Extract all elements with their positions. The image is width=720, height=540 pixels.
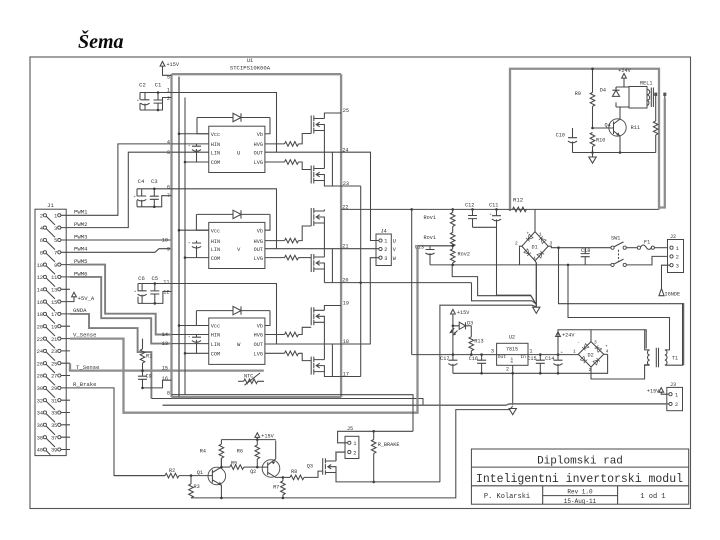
wire V-high drain to DC+ (pin22) (323, 209, 325, 211)
svg-text:Vb: Vb (257, 324, 263, 330)
svg-text:W: W (393, 256, 397, 262)
svg-text:1: 1 (676, 246, 679, 252)
svg-text:3: 3 (54, 226, 57, 232)
svg-text:40: 40 (37, 448, 43, 454)
svg-text:25: 25 (51, 361, 57, 367)
net labels on J1 wires (73, 209, 100, 388)
svg-text:10: 10 (37, 263, 43, 269)
NTC thermistor (238, 373, 264, 385)
capacitor C16 (469, 355, 486, 374)
svg-text:31: 31 (51, 398, 57, 404)
svg-text:Vcc: Vcc (211, 324, 220, 330)
title block (471, 449, 688, 505)
driver block W (209, 318, 265, 364)
svg-text:Rev 1.0: Rev 1.0 (567, 489, 593, 496)
wire D2 top to +24V line (590, 330, 592, 342)
capacitor C10 (556, 127, 594, 153)
ground at U2 gnd (509, 409, 516, 415)
svg-text:R10: R10 (596, 138, 605, 144)
slide title (78, 31, 124, 54)
svg-text:U: U (237, 150, 240, 157)
connector J5 (345, 426, 359, 459)
wire relay emitter rail (573, 152, 656, 154)
connector J3 (667, 382, 683, 411)
U1 bus pin numbers right (342, 108, 349, 377)
svg-text:+5V_A: +5V_A (78, 295, 95, 302)
+24V arrow relay (618, 68, 631, 87)
wire J3 pin2 long return (163, 404, 669, 405)
svg-text:23: 23 (51, 349, 57, 355)
svg-text:+15V: +15V (261, 434, 274, 440)
svg-text:11: 11 (51, 275, 57, 281)
svg-text:+15V: +15V (647, 388, 660, 394)
svg-text:+15V: +15V (457, 310, 470, 316)
svg-text:V: V (237, 246, 241, 253)
svg-text:3: 3 (550, 241, 553, 247)
wire U-high drain pin25 (324, 113, 341, 119)
resistor R6 (237, 440, 260, 469)
capacitor C4 (137, 196, 146, 201)
driver V row wires (179, 230, 209, 257)
svg-text:2: 2 (515, 241, 518, 247)
bootstrap diode W (196, 306, 270, 325)
svg-text:+: + (527, 232, 530, 237)
svg-text:2: 2 (40, 214, 43, 220)
resistor R1 (140, 349, 145, 363)
svg-text:N: N (511, 361, 513, 365)
J1 pin numbers (37, 214, 58, 454)
svg-text:C10: C10 (556, 133, 565, 139)
svg-text:+24V: +24V (562, 333, 575, 339)
wire phase U inner riser (331, 152, 333, 186)
connector J1 (35, 202, 66, 456)
resistor R11 (631, 99, 658, 153)
svg-text:J1: J1 (47, 202, 54, 209)
svg-text:8: 8 (40, 251, 43, 257)
wire W-high source (323, 322, 325, 344)
wire D1 bottom to ground node (535, 261, 536, 307)
svg-text:*: * (188, 336, 190, 341)
svg-text:COM: COM (211, 352, 220, 358)
wire T_Sense (70, 363, 264, 370)
J1 pin rows (46, 215, 70, 454)
resistor R13 (469, 326, 484, 355)
svg-text:Rov2: Rov2 (458, 252, 470, 258)
wire D1 AC right to switch (548, 246, 611, 248)
resistor R12 (513, 197, 527, 212)
wire R_Brake (70, 388, 165, 476)
wire AC lower line (520, 264, 612, 266)
resistor LVG V (265, 257, 285, 259)
svg-text:HIN: HIN (211, 333, 220, 339)
wire W-low drain to phase (323, 344, 325, 360)
relay section box (510, 69, 659, 210)
svg-text:35: 35 (51, 423, 57, 429)
svg-text:3: 3 (384, 256, 387, 262)
svg-text:1 od 1: 1 od 1 (640, 493, 665, 501)
wire phase U (pin24) to J4 (265, 152, 379, 240)
svg-text:Rov1: Rov1 (424, 235, 436, 241)
mosfet Q W-high (311, 307, 324, 325)
svg-text:C16: C16 (469, 356, 478, 362)
svg-text:19: 19 (343, 300, 349, 306)
svg-text:GNDA: GNDA (73, 307, 87, 314)
U1 pin number labels (left bus) (162, 74, 170, 396)
svg-text:Q2: Q2 (250, 469, 256, 475)
svg-text:25: 25 (343, 108, 349, 114)
svg-text:12: 12 (163, 289, 169, 295)
svg-text:+: + (134, 196, 137, 200)
svg-text:5: 5 (167, 74, 170, 80)
wire Rov2 bottom to D1 minus rail (430, 248, 520, 265)
wire D1 plus to DC+ (534, 209, 536, 231)
wire V-low source to DC- (pin20) (323, 269, 325, 283)
wire phase W (pin18) to J4 (265, 258, 379, 344)
svg-text:P. Kolarski: P. Kolarski (484, 493, 530, 501)
svg-text:14: 14 (162, 332, 168, 338)
svg-text:J4: J4 (380, 229, 386, 235)
svg-text:OUT: OUT (254, 247, 263, 253)
bridge rectifier D2 (573, 339, 609, 373)
relay REL1 (629, 81, 666, 109)
svg-text:13: 13 (162, 341, 168, 347)
resistor Rov1 (424, 209, 455, 226)
wire PWM4 (70, 249, 172, 253)
+15V rail transistor stage (221, 439, 275, 441)
driver W row wires (172, 326, 209, 354)
wire D2 bottom loop to T1 (591, 365, 650, 379)
svg-text:15-Aug-11: 15-Aug-11 (564, 498, 597, 505)
local filter cap W (188, 335, 201, 354)
svg-text:R1: R1 (146, 353, 152, 359)
wire PWM6 (70, 277, 172, 344)
svg-text:22: 22 (37, 337, 43, 343)
svg-text:HVG: HVG (254, 239, 263, 245)
svg-text:C1: C1 (155, 82, 162, 89)
svg-text:C15: C15 (527, 356, 536, 362)
svg-text:U2: U2 (509, 335, 515, 341)
svg-text:PWM3: PWM3 (74, 233, 87, 240)
svg-text:+: + (605, 345, 608, 350)
driver block U (209, 126, 265, 172)
svg-text:+: + (137, 100, 140, 104)
svg-text:Rov1: Rov1 (424, 215, 436, 221)
fuse F1 (626, 240, 667, 250)
svg-text:LIN: LIN (211, 342, 220, 348)
mosfet Q V-high (311, 208, 324, 226)
wire D2 right to cap ground rail (604, 353, 608, 355)
svg-text:19: 19 (51, 324, 57, 330)
LED D3 (450, 320, 473, 335)
wire Q3 drain to J5 pin2 (336, 452, 346, 461)
svg-text:1: 1 (573, 349, 576, 355)
capacitor C2 (140, 100, 149, 105)
svg-text:-: - (577, 341, 580, 346)
resistor R10 (590, 133, 605, 153)
svg-text:20: 20 (37, 324, 43, 330)
mosfet Q U-low (311, 166, 324, 184)
wire phase W inner riser (331, 344, 333, 377)
svg-text:F1: F1 (644, 240, 650, 246)
wire U-high source to phase (323, 131, 325, 153)
mosfet Q U-high (311, 116, 324, 134)
svg-text:D2: D2 (588, 352, 594, 358)
resistor R3 (189, 476, 200, 498)
svg-text:D1: D1 (532, 244, 538, 250)
resistor R8 (283, 469, 323, 480)
bootstrap cap V (pin6 rail to phase) (172, 189, 277, 249)
svg-text:Diplomski rad: Diplomski rad (537, 456, 623, 468)
wire U1 pin8 brake output (172, 395, 414, 432)
ground below R10 (592, 153, 594, 158)
svg-text:2: 2 (384, 247, 387, 253)
svg-text:U1: U1 (247, 58, 253, 64)
svg-text:7: 7 (54, 251, 57, 257)
resistor R9 (575, 67, 595, 128)
svg-text:7815: 7815 (506, 346, 518, 352)
svg-text:33: 33 (51, 411, 57, 417)
svg-text:J2: J2 (670, 234, 676, 240)
svg-text:C6: C6 (138, 275, 145, 282)
wire +15V feed to U2 out (411, 209, 413, 354)
resistor HVG U (265, 143, 285, 145)
transformer T1 (645, 304, 683, 367)
svg-text:R2: R2 (169, 468, 175, 474)
svg-text:C9: C9 (146, 374, 152, 380)
svg-text:14: 14 (37, 288, 43, 294)
wire PWM2 (70, 152, 172, 227)
svg-text:OUT: OUT (254, 342, 263, 348)
svg-text:*: * (188, 241, 190, 246)
resistor LVG W (265, 352, 285, 354)
svg-text:15: 15 (162, 365, 168, 371)
svg-text:1: 1 (353, 441, 356, 447)
capacitor C14 (545, 351, 563, 373)
svg-text:6: 6 (167, 184, 170, 190)
capacitor C13 (415, 245, 435, 265)
ground node bundle arrow (533, 263, 540, 314)
svg-text:38: 38 (37, 435, 43, 441)
svg-text:R13: R13 (474, 339, 483, 345)
svg-text:R4: R4 (200, 448, 206, 454)
capacitor C3 (150, 196, 159, 199)
svg-text:21: 21 (51, 337, 57, 343)
svg-text:17: 17 (51, 312, 57, 318)
svg-text:PWM1: PWM1 (74, 209, 88, 216)
svg-text:1: 1 (529, 349, 532, 355)
svg-text:D4: D4 (600, 88, 606, 94)
resistor R2 (165, 468, 212, 478)
svg-text:LIN: LIN (211, 247, 220, 253)
+15V arrow transistor stage (255, 433, 275, 440)
svg-text:+15V: +15V (167, 62, 180, 68)
capacitor C9 (138, 376, 147, 379)
svg-text:3: 3 (167, 150, 170, 156)
svg-text:R_BRAKE: R_BRAKE (378, 442, 400, 448)
svg-text:COM: COM (211, 256, 220, 262)
wire V-low drain to phase (323, 249, 325, 257)
svg-text:NTC: NTC (244, 373, 253, 379)
wire GNDA (70, 314, 151, 399)
mosfet Q V-low (311, 254, 324, 272)
capacitor group C4 C3 (134, 178, 172, 208)
connector J4 (376, 229, 397, 266)
svg-text:OUT: OUT (254, 150, 263, 156)
mosfet Q3 (307, 458, 336, 474)
svg-text:4: 4 (533, 256, 536, 262)
svg-text:HIN: HIN (211, 239, 220, 245)
svg-text:C11: C11 (489, 203, 498, 209)
svg-text:1: 1 (384, 239, 387, 245)
capacitor C15 (527, 355, 545, 374)
wire PWM1 (70, 144, 172, 215)
capacitor C1 (154, 100, 163, 103)
wire V-high source (323, 223, 325, 249)
svg-text:REL1: REL1 (640, 81, 652, 87)
svg-text:5: 5 (54, 238, 57, 244)
svg-text:9: 9 (167, 246, 170, 252)
resistor Rov1b (424, 226, 455, 246)
wire DC+ rail (pin22) (341, 208, 659, 210)
bridge rectifier D1 (515, 232, 553, 262)
svg-text:27: 27 (51, 374, 57, 380)
svg-text:PWM4: PWM4 (74, 246, 88, 253)
wire J5 pin1 to brake node (338, 431, 413, 443)
+15V output rail (412, 354, 579, 356)
wire D1 minus left leg (520, 246, 522, 248)
svg-text:30: 30 (37, 386, 43, 392)
svg-text:STCIPS10K60A: STCIPS10K60A (230, 65, 271, 72)
resistor LVG U (265, 161, 285, 163)
wire phase V inner riser (331, 249, 333, 283)
svg-text:C5: C5 (151, 275, 158, 282)
svg-text:*: * (188, 145, 190, 150)
svg-text:3: 3 (594, 339, 597, 345)
wire W-high drain pin19 (324, 306, 341, 311)
wire PWM3 (70, 239, 172, 241)
svg-text:R9: R9 (575, 91, 581, 97)
svg-text:1: 1 (539, 232, 542, 238)
svg-text:Vcc: Vcc (211, 132, 220, 138)
svg-text:6: 6 (40, 238, 43, 244)
ground rail U2 (453, 354, 608, 373)
resistor R_BRAKE (371, 431, 399, 482)
svg-text:9: 9 (54, 263, 57, 269)
svg-text:Vcc: Vcc (211, 228, 220, 234)
ground IGNDE (659, 289, 680, 298)
capacitor C6 (138, 291, 147, 296)
svg-text:1: 1 (675, 392, 678, 398)
svg-text:LVG: LVG (254, 352, 263, 358)
svg-text:29: 29 (51, 386, 57, 392)
capacitor group C6 C5 (134, 275, 172, 305)
svg-text:C12: C12 (465, 203, 474, 209)
svg-text:W: W (237, 341, 241, 348)
svg-text:1: 1 (54, 214, 57, 220)
svg-text:LVG: LVG (254, 160, 263, 166)
resistor Rov2 (450, 246, 470, 265)
wire Q3 source to brake return (336, 473, 440, 482)
transistor Q2 (250, 441, 283, 478)
svg-text:37: 37 (51, 435, 57, 441)
transistor Q1 (197, 458, 226, 498)
svg-text:C2: C2 (139, 82, 146, 89)
bootstrap cap W (pin11 rail to phase) (172, 284, 277, 345)
capacitor C18 (581, 248, 591, 265)
resistor R4 (200, 440, 224, 469)
svg-text:3: 3 (676, 263, 679, 269)
wire +5V_A (70, 297, 74, 302)
svg-text:4: 4 (167, 139, 170, 145)
wire DC- (pin20) (324, 282, 471, 284)
bootstrap cap U (pin1 rail to phase) (172, 93, 277, 153)
regulator U2 7815 (491, 335, 533, 405)
svg-text:+: + (134, 291, 137, 295)
wire PWM5 (70, 265, 172, 335)
svg-text:2: 2 (676, 255, 679, 261)
capacitor group C2 C1 (137, 82, 172, 112)
svg-text:PWM2: PWM2 (74, 221, 87, 228)
+15V supply arrow top (160, 62, 180, 76)
transistor Q4 (593, 107, 627, 153)
resistor HVG W (265, 334, 285, 336)
svg-text:13: 13 (51, 288, 57, 294)
svg-text:12: 12 (37, 275, 43, 281)
svg-text:15: 15 (51, 300, 57, 306)
svg-text:Q1: Q1 (197, 470, 203, 476)
svg-text:16: 16 (37, 300, 43, 306)
wire DC- step down to ground node (472, 283, 537, 305)
wire emitter ground rail (191, 406, 513, 498)
wire J2 pin3 to IGNDE (662, 265, 670, 288)
svg-text:HVG: HVG (254, 333, 263, 339)
capacitor C17 (440, 355, 457, 374)
diode D4 (600, 87, 629, 107)
svg-text:28: 28 (37, 374, 43, 380)
wire divider tap to C13/Rov junction (418, 245, 453, 247)
wire U-low drain to phase (323, 152, 325, 168)
svg-text:2: 2 (353, 450, 356, 456)
svg-text:2: 2 (167, 96, 170, 102)
svg-text:LVG: LVG (254, 256, 263, 262)
svg-text:HIN: HIN (211, 142, 220, 148)
svg-text:8: 8 (167, 390, 170, 396)
svg-text:2: 2 (675, 402, 678, 408)
svg-text:IGNDE: IGNDE (665, 292, 681, 298)
wire phase V (pin21) to J4 (265, 248, 379, 250)
svg-text:34: 34 (37, 411, 43, 417)
svg-text:R12: R12 (513, 197, 523, 204)
wire W-low source pin17 (324, 372, 360, 377)
svg-text:C3: C3 (151, 178, 158, 185)
svg-text:C14: C14 (545, 356, 554, 362)
capacitor C5 (150, 291, 159, 294)
driver block V (209, 222, 265, 268)
wire U-low source pin23 (324, 181, 360, 187)
local filter cap V (188, 241, 201, 258)
svg-text:In: In (520, 354, 526, 360)
+24V arrow at C14 (556, 330, 647, 355)
svg-text:32: 32 (37, 398, 43, 404)
svg-text:24: 24 (37, 349, 43, 355)
schematic frame border (30, 57, 691, 509)
svg-text:LIN: LIN (211, 150, 220, 156)
svg-text:R8: R8 (291, 469, 297, 475)
svg-text:R11: R11 (631, 125, 640, 131)
C9 / R1 sense divider (138, 339, 172, 390)
svg-text:10: 10 (162, 238, 168, 244)
bootstrap diode U (197, 113, 270, 133)
